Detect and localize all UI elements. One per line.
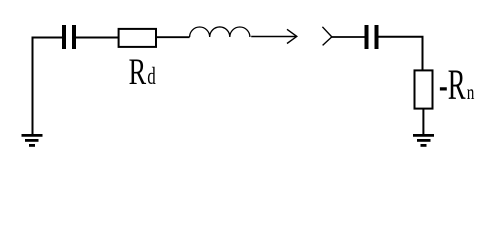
ground (left) bar 3	[29, 144, 35, 147]
inductor L (3 humps)	[190, 27, 250, 37]
wire: left vertical (input node to ground)	[32, 37, 34, 135]
arrowhead (open, output)	[287, 29, 297, 43]
wire: inductor to output arrow	[251, 36, 296, 38]
svg-text:R: R	[129, 52, 147, 92]
wire: resistor -Rn to ground (right)	[422, 109, 424, 135]
capacitor (right series), plate 2	[375, 25, 379, 49]
connector chevron (input of right network)	[322, 27, 331, 46]
wire: resistor Rd to inductor	[156, 36, 190, 38]
ground (right) bar 3	[421, 144, 427, 147]
svg-text:-R: -R	[439, 60, 466, 108]
svg-text:n: n	[467, 81, 475, 104]
capacitor (left series), plate 1	[62, 25, 66, 49]
wire: top-left horizontal to capacitor	[32, 37, 63, 39]
label Rd	[129, 52, 157, 92]
wire: capacitor right, corner down to resistor -Rn	[379, 37, 423, 71]
capacitor (left series), plate 2	[72, 25, 76, 49]
wire: chevron to capacitor (right)	[332, 36, 365, 38]
capacitor (right series), plate 1	[365, 25, 369, 49]
label -Rn	[439, 60, 474, 108]
resistor Rd (body)	[119, 29, 156, 47]
ground (left) bar 1	[22, 134, 43, 137]
svg-text:d: d	[147, 62, 156, 90]
wire: capacitor to resistor Rd	[76, 37, 118, 39]
ground (left) bar 2	[25, 139, 39, 142]
resistor -Rn (body, vertical)	[415, 70, 433, 108]
ground (right) bar 2	[417, 139, 431, 142]
ground (right) bar 1	[413, 134, 434, 137]
